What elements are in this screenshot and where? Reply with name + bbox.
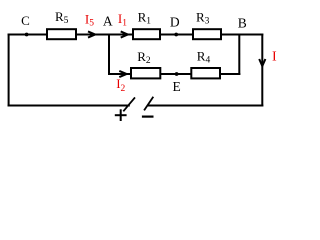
battery + polarity label: [115, 109, 127, 121]
resistor R2: [131, 49, 160, 78]
resistor R1: [133, 9, 160, 39]
svg-text:E: E: [172, 79, 180, 94]
wire: segment R2 to R4 (through node E): [160, 73, 192, 75]
wire: left vertical (C branch down to battery): [8, 34, 10, 107]
wire: bottom segment from left corner to battery positive plate: [8, 105, 130, 107]
node C: [21, 13, 30, 36]
wire: top segment R3 to top-right corner (through node B): [220, 34, 263, 36]
svg-text:C: C: [21, 13, 30, 28]
current arrow I5: [85, 11, 95, 37]
current arrow I1: [118, 11, 128, 37]
svg-text:A: A: [103, 13, 113, 28]
node E: [172, 72, 180, 94]
battery − polarity label: [142, 115, 154, 117]
wire: segment R4 to node B drop: [219, 73, 240, 75]
wire: segment R5 to R1 (through node A): [76, 34, 134, 36]
svg-text:B: B: [238, 15, 247, 30]
current arrow I2: [116, 71, 126, 94]
wire: branch vertical from node A down: [108, 34, 110, 76]
current arrow I: [259, 49, 277, 66]
wire: branch horizontal from A-corner to R2: [108, 73, 131, 75]
wire: top segment from left corner to R5: [8, 34, 48, 36]
wire: vertical from node B down to R4 row: [238, 34, 240, 76]
resistor R3: [193, 9, 221, 39]
wire: bottom segment from battery negative plate to right corner: [147, 105, 263, 107]
wire: segment R1 to R3 (through node D): [160, 34, 193, 36]
wire: right vertical (top-right corner down to battery): [261, 34, 263, 107]
battery negative plate: [144, 97, 153, 111]
battery positive plate: [123, 97, 135, 111]
resistor R5: [47, 9, 76, 39]
node D: [170, 14, 180, 36]
resistor R4: [191, 48, 220, 78]
svg-text:I: I: [272, 49, 277, 64]
svg-text:D: D: [170, 14, 180, 29]
